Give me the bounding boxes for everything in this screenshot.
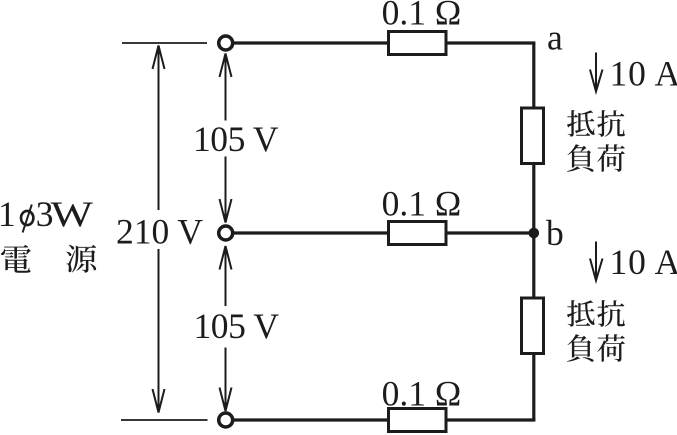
terminal top	[219, 36, 233, 50]
load resistor RL2	[522, 298, 544, 354]
wire top feeder	[234, 41, 535, 44]
resistor R1 0.1 ohm top	[389, 32, 447, 55]
resistor R2 0.1 ohm middle	[389, 222, 447, 245]
node b junction dot	[529, 228, 540, 239]
load1 label kanji TEI	[567, 110, 595, 137]
current arrow 10A bottom	[590, 242, 603, 281]
current arrow 10A top	[590, 53, 603, 92]
terminal bottom	[219, 413, 233, 427]
load resistor RL1	[522, 108, 544, 164]
svg-text:0.1 Ω: 0.1 Ω	[382, 0, 462, 33]
svg-text:W: W	[51, 194, 94, 234]
svg-text:b: b	[546, 213, 564, 253]
load2 label kanji KOU	[597, 300, 625, 327]
svg-text:105 V: 105 V	[193, 306, 279, 346]
svg-text:10 A: 10 A	[610, 242, 677, 282]
tick line top	[122, 42, 207, 44]
resistor R3 0.1 ohm bottom	[389, 409, 447, 432]
210V dimension arrow	[153, 46, 165, 413]
105V upper dimension arrow	[220, 54, 232, 223]
load1 label kanji KOU	[597, 110, 625, 137]
svg-text:0.1 Ω: 0.1 Ω	[382, 184, 462, 224]
svg-text:105 V: 105 V	[193, 119, 279, 159]
terminal middle	[219, 226, 233, 240]
tick line bottom	[121, 419, 208, 421]
svg-text:0.1 Ω: 0.1 Ω	[382, 374, 462, 414]
svg-text:10 A: 10 A	[610, 54, 677, 94]
load1 label kanji FU	[567, 144, 594, 172]
svg-text:210 V: 210 V	[116, 212, 203, 252]
wire bottom feeder	[234, 418, 535, 421]
load2 label kanji TEI	[567, 300, 595, 327]
wire node b to load 2	[532, 233, 535, 299]
svg-text:a: a	[547, 18, 563, 58]
load2 label kanji FU	[567, 334, 594, 362]
load2 label kanji KA	[597, 334, 625, 362]
wire load1 to node b	[532, 164, 535, 234]
wire middle feeder	[234, 231, 535, 234]
svg-text:1: 1	[0, 194, 16, 234]
wire load2 to bottom corner	[532, 354, 535, 421]
105V lower dimension arrow	[220, 246, 232, 411]
label source kanji GEN	[66, 245, 96, 273]
load1 label kanji KA	[597, 144, 625, 172]
label source kanji DEN	[1, 245, 31, 273]
wire top-right drop to load 1	[532, 43, 535, 109]
